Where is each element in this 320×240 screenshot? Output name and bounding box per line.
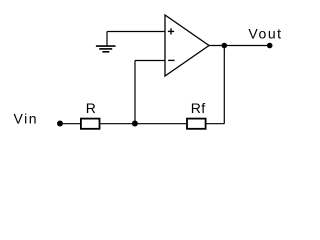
svg-text:R: R (86, 100, 96, 116)
svg-text:Rf: Rf (191, 100, 206, 116)
svg-text:Vin: Vin (14, 111, 39, 127)
svg-text:Vout: Vout (248, 26, 282, 42)
